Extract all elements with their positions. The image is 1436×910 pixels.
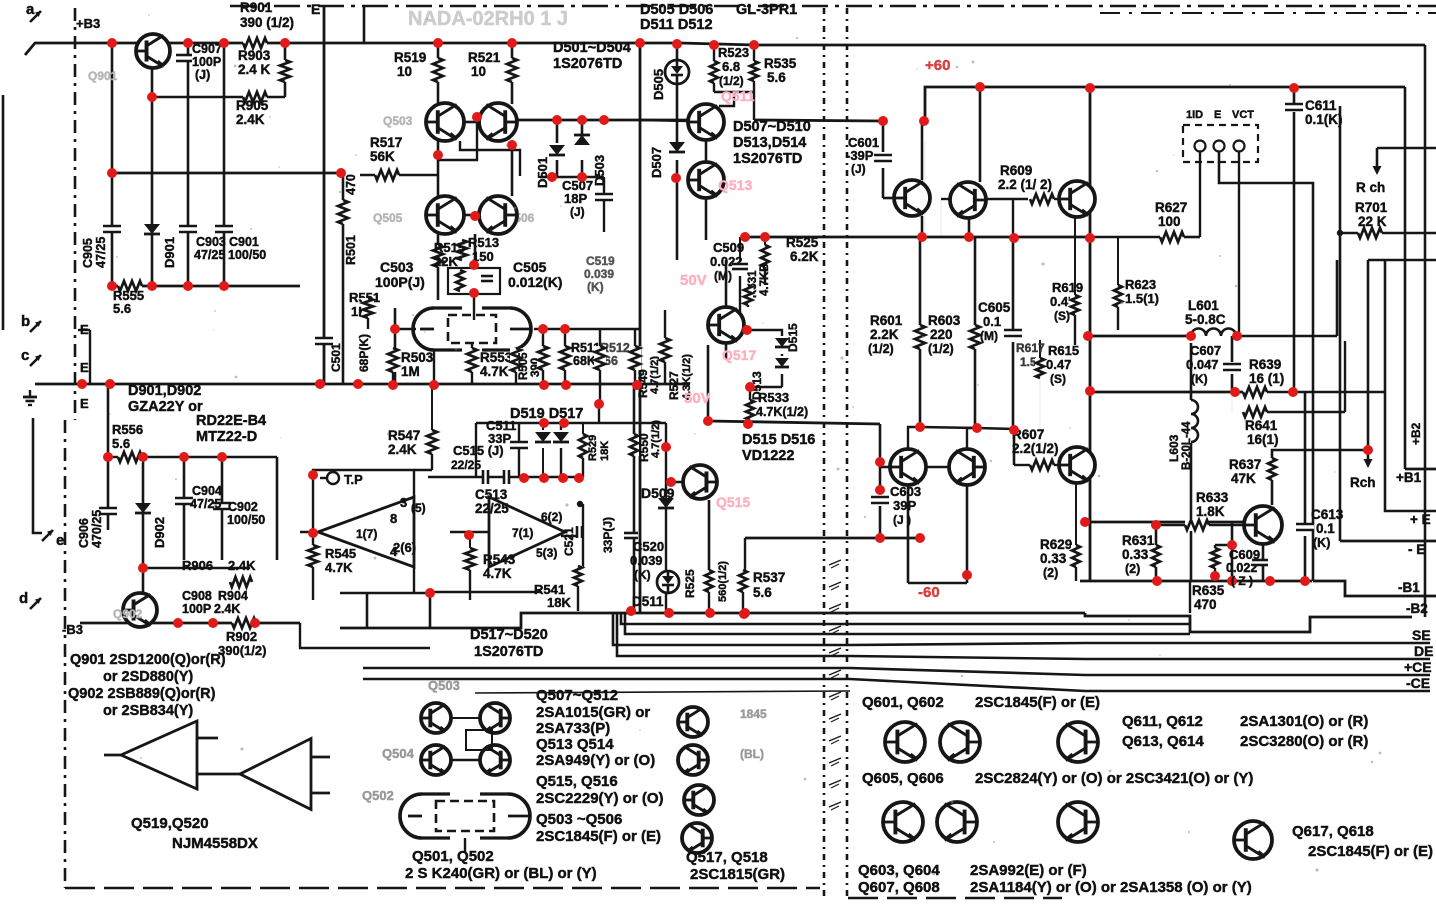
svg-text:e: e xyxy=(56,532,64,549)
svg-text:5.6: 5.6 xyxy=(113,301,131,316)
svg-text:L601: L601 xyxy=(1188,298,1219,313)
svg-text:2(6): 2(6) xyxy=(393,540,416,555)
svg-text:R503: R503 xyxy=(401,350,434,365)
svg-text:50V: 50V xyxy=(684,390,711,407)
svg-text:D507~D510: D507~D510 xyxy=(733,119,811,135)
svg-text:2.4K: 2.4K xyxy=(388,442,417,457)
svg-text:2SC1845(F) or (E): 2SC1845(F) or (E) xyxy=(536,828,661,845)
svg-text:C513: C513 xyxy=(475,487,508,502)
svg-text:C904: C904 xyxy=(192,484,222,498)
svg-text:Q601, Q602: Q601, Q602 xyxy=(862,694,944,711)
svg-text:R619: R619 xyxy=(1052,280,1083,295)
svg-text:1.8K: 1.8K xyxy=(1196,504,1225,519)
svg-text:4.7(1/2): 4.7(1/2) xyxy=(650,420,662,458)
svg-text:1S2076TD: 1S2076TD xyxy=(733,151,802,167)
svg-text:D901: D901 xyxy=(162,237,177,268)
svg-text:b: b xyxy=(21,313,30,330)
svg-text:R501: R501 xyxy=(344,235,358,265)
svg-text:2SC1845(F) or (E): 2SC1845(F) or (E) xyxy=(975,694,1100,711)
svg-text:C613: C613 xyxy=(1311,507,1344,522)
svg-text:Q519,Q520: Q519,Q520 xyxy=(131,815,209,832)
svg-text:470/25: 470/25 xyxy=(90,510,104,548)
svg-text:4.7K: 4.7K xyxy=(325,560,353,575)
svg-text:D501~D504: D501~D504 xyxy=(553,40,631,56)
svg-text:Q502: Q502 xyxy=(362,788,394,803)
svg-text:R905: R905 xyxy=(236,98,269,113)
svg-text:0.047: 0.047 xyxy=(1186,357,1219,372)
svg-text:Q902 2SB889(Q)or(R): Q902 2SB889(Q)or(R) xyxy=(68,686,216,702)
svg-text:C520: C520 xyxy=(633,539,664,554)
svg-text:(1/2): (1/2) xyxy=(719,74,744,88)
svg-text:18K: 18K xyxy=(547,595,571,610)
svg-text:4.7K: 4.7K xyxy=(483,566,512,581)
svg-text:C902: C902 xyxy=(228,500,258,514)
svg-text:Q605, Q606: Q605, Q606 xyxy=(862,770,944,787)
svg-text:-B2: -B2 xyxy=(1406,601,1428,616)
svg-text:47/25: 47/25 xyxy=(190,497,221,511)
svg-text:E: E xyxy=(80,396,89,411)
svg-text:(K): (K) xyxy=(634,568,651,582)
svg-text:4.7KB: 4.7KB xyxy=(759,263,771,296)
svg-text:0.1: 0.1 xyxy=(1316,521,1335,536)
svg-text:R641: R641 xyxy=(1245,418,1278,433)
svg-text:R639: R639 xyxy=(1249,357,1281,372)
svg-text:0.1: 0.1 xyxy=(983,314,1001,329)
svg-text:+60: +60 xyxy=(925,57,950,74)
svg-text:(1/2): (1/2) xyxy=(868,342,894,356)
svg-text:E: E xyxy=(311,1,320,17)
svg-text:1S2076TD: 1S2076TD xyxy=(474,644,543,660)
svg-text:D513,D514: D513,D514 xyxy=(733,135,806,151)
svg-text:0.039: 0.039 xyxy=(584,267,614,281)
svg-text:4.7K(1/2): 4.7K(1/2) xyxy=(756,405,808,419)
svg-text:(BL): (BL) xyxy=(740,747,764,761)
svg-text:33P(J): 33P(J) xyxy=(601,517,615,553)
svg-text:E: E xyxy=(1214,109,1221,121)
svg-text:220: 220 xyxy=(930,327,953,342)
svg-text:R525: R525 xyxy=(786,235,819,250)
svg-text:Q507~Q512: Q507~Q512 xyxy=(536,687,618,704)
svg-text:+CE: +CE xyxy=(1404,659,1432,675)
svg-text:2.4K: 2.4K xyxy=(236,112,265,127)
svg-text:100/50: 100/50 xyxy=(227,513,265,527)
svg-text:+B1: +B1 xyxy=(1396,470,1422,485)
svg-text:8: 8 xyxy=(390,511,397,526)
svg-text:0.039: 0.039 xyxy=(630,553,663,568)
svg-text:-60: -60 xyxy=(918,584,940,601)
svg-text:R523: R523 xyxy=(718,45,749,60)
svg-text:C503: C503 xyxy=(380,259,414,275)
svg-text:0.012(K): 0.012(K) xyxy=(508,274,562,290)
svg-text:R543: R543 xyxy=(483,552,516,567)
svg-text:R547: R547 xyxy=(388,428,420,443)
svg-text:Q504: Q504 xyxy=(382,746,415,761)
svg-text:18P: 18P xyxy=(564,191,587,206)
svg-text:R635: R635 xyxy=(1192,583,1225,598)
svg-text:47K: 47K xyxy=(1231,471,1256,486)
svg-text:1S2076TD: 1S2076TD xyxy=(553,56,622,72)
svg-text:47/25: 47/25 xyxy=(194,248,225,262)
svg-text:-B1: -B1 xyxy=(1398,580,1420,595)
svg-text:or 2SD880(Y): or 2SD880(Y) xyxy=(103,669,193,685)
svg-text:C905: C905 xyxy=(81,238,95,268)
svg-text:39P: 39P xyxy=(893,498,916,513)
svg-text:5-0.8C: 5-0.8C xyxy=(1185,312,1226,327)
svg-text:2SC1845(F) or (E): 2SC1845(F) or (E) xyxy=(1308,843,1433,860)
svg-text:Q505: Q505 xyxy=(373,211,403,225)
svg-text:Q513 Q514: Q513 Q514 xyxy=(536,736,614,753)
svg-text:R629: R629 xyxy=(1040,537,1072,552)
svg-text:100P(J): 100P(J) xyxy=(375,274,425,290)
svg-text:5(3): 5(3) xyxy=(536,546,557,560)
svg-text:Q503: Q503 xyxy=(383,114,413,128)
svg-text:(2): (2) xyxy=(1043,566,1058,580)
svg-text:R553: R553 xyxy=(480,350,513,365)
svg-text:22K: 22K xyxy=(434,254,458,269)
svg-text:470: 470 xyxy=(1194,597,1217,612)
svg-text:D511: D511 xyxy=(632,594,664,609)
svg-text:T.P: T.P xyxy=(344,472,363,487)
svg-text:R906: R906 xyxy=(182,558,213,573)
svg-text:0.33: 0.33 xyxy=(1040,551,1067,566)
svg-text:10: 10 xyxy=(397,64,412,79)
svg-text:1ID: 1ID xyxy=(1186,109,1203,121)
svg-text:C903: C903 xyxy=(196,235,226,249)
svg-text:D505: D505 xyxy=(651,69,666,100)
svg-text:2 S K240(GR) or (BL) or (Y): 2 S K240(GR) or (BL) or (Y) xyxy=(405,865,597,882)
svg-text:GL-3PR1: GL-3PR1 xyxy=(736,2,797,18)
svg-text:R ch: R ch xyxy=(1356,180,1385,195)
svg-text:50V: 50V xyxy=(680,272,707,289)
svg-text:68P(K): 68P(K) xyxy=(357,334,371,372)
svg-text:C505: C505 xyxy=(513,259,547,275)
svg-text:6.8: 6.8 xyxy=(722,59,740,74)
svg-text:D901,D902: D901,D902 xyxy=(128,383,201,399)
svg-text:100: 100 xyxy=(1158,214,1181,229)
svg-text:2SA1015(GR) or: 2SA1015(GR) or xyxy=(536,704,650,721)
svg-text:C603: C603 xyxy=(890,484,921,499)
svg-text:Q503 ~Q506: Q503 ~Q506 xyxy=(536,811,622,828)
svg-text:R637: R637 xyxy=(1229,457,1261,472)
svg-text:Q513: Q513 xyxy=(718,177,752,193)
svg-text:R615: R615 xyxy=(1048,343,1079,358)
svg-text:(K): (K) xyxy=(587,280,604,294)
svg-text:R903: R903 xyxy=(238,48,271,63)
svg-text:R627: R627 xyxy=(1155,200,1187,215)
svg-text:C501: C501 xyxy=(329,343,343,372)
svg-text:Q517, Q518: Q517, Q518 xyxy=(686,849,768,866)
svg-text:2SC2229(Y) or (O): 2SC2229(Y) or (O) xyxy=(536,790,664,807)
svg-text:- E: - E xyxy=(1408,542,1425,557)
svg-text:100P: 100P xyxy=(192,55,221,69)
svg-text:5.6: 5.6 xyxy=(753,585,772,600)
svg-text:Q515: Q515 xyxy=(716,494,750,510)
svg-text:R701: R701 xyxy=(1355,200,1388,215)
svg-text:Q611, Q612: Q611, Q612 xyxy=(1122,713,1203,730)
svg-text:2.4K: 2.4K xyxy=(228,558,256,573)
svg-text:2.2 (1/ 2): 2.2 (1/ 2) xyxy=(998,177,1052,192)
svg-text:B-20L-44: B-20L-44 xyxy=(1181,421,1193,470)
svg-text:6.2K: 6.2K xyxy=(790,249,819,264)
svg-text:Q901: Q901 xyxy=(88,69,118,83)
svg-text:56K: 56K xyxy=(370,149,395,164)
svg-text:560(1/2): 560(1/2) xyxy=(717,561,729,602)
svg-text:470: 470 xyxy=(344,174,358,195)
svg-text:Q501, Q502: Q501, Q502 xyxy=(412,848,494,865)
svg-text:MTZ22-D: MTZ22-D xyxy=(196,429,257,445)
svg-text:R556: R556 xyxy=(112,422,143,437)
svg-text:2SA1301(O) or (R): 2SA1301(O) or (R) xyxy=(1240,713,1368,730)
svg-text:(J): (J) xyxy=(570,205,585,219)
svg-text:2SA1184(Y) or (O) or 2SA1358 (: 2SA1184(Y) or (O) or 2SA1358 (O) or (Y) xyxy=(970,879,1252,896)
svg-text:68K: 68K xyxy=(573,354,596,368)
svg-text:1(7): 1(7) xyxy=(356,527,377,541)
svg-text:R609: R609 xyxy=(1000,163,1032,178)
svg-text:R505: R505 xyxy=(518,352,530,380)
svg-text:D501: D501 xyxy=(535,157,550,188)
svg-text:R603: R603 xyxy=(928,313,961,328)
svg-text:R513: R513 xyxy=(468,235,499,250)
svg-text:(J ): (J ) xyxy=(893,513,911,527)
svg-text:C907: C907 xyxy=(192,42,222,56)
svg-text:R537: R537 xyxy=(753,570,785,585)
svg-text:R617: R617 xyxy=(1016,341,1045,355)
svg-text:Q503: Q503 xyxy=(428,678,460,693)
svg-text:R902: R902 xyxy=(226,629,257,644)
svg-text:C906: C906 xyxy=(77,518,91,548)
svg-text:3: 3 xyxy=(400,495,407,510)
svg-text:(J): (J) xyxy=(195,68,210,82)
svg-text:(J): (J) xyxy=(851,162,866,176)
svg-text:R525: R525 xyxy=(683,569,697,598)
svg-text:4.7K: 4.7K xyxy=(480,364,509,379)
svg-text:Q511: Q511 xyxy=(721,88,755,104)
svg-text:D503: D503 xyxy=(592,155,607,186)
svg-text:D507: D507 xyxy=(649,147,664,178)
svg-text:D902: D902 xyxy=(152,517,167,548)
svg-text:C611: C611 xyxy=(1305,98,1337,113)
svg-text:6(2): 6(2) xyxy=(541,510,562,524)
svg-text:+B2: +B2 xyxy=(1409,422,1423,445)
svg-text:VD1222: VD1222 xyxy=(742,448,794,464)
svg-text:1M: 1M xyxy=(401,364,420,379)
svg-text:E: E xyxy=(80,360,89,375)
svg-text:0.1(K): 0.1(K) xyxy=(1305,112,1343,127)
svg-text:C521: C521 xyxy=(562,527,576,556)
svg-text:2.4K: 2.4K xyxy=(214,602,240,616)
svg-text:C605: C605 xyxy=(978,300,1011,315)
svg-text:+ E: + E xyxy=(1410,512,1431,527)
svg-text:(S): (S) xyxy=(1050,372,1066,386)
svg-text:D515: D515 xyxy=(786,323,800,352)
svg-text:5.6: 5.6 xyxy=(112,436,130,451)
svg-text:0.47: 0.47 xyxy=(1046,357,1071,372)
svg-text:2SC3280(O) or (R): 2SC3280(O) or (R) xyxy=(1240,733,1368,750)
svg-text:R601: R601 xyxy=(870,313,903,328)
svg-text:R633: R633 xyxy=(1196,490,1229,505)
svg-text:E: E xyxy=(80,322,89,337)
svg-text:Q613, Q614: Q613, Q614 xyxy=(1122,733,1204,750)
svg-text:1.5: 1.5 xyxy=(1020,355,1037,369)
svg-text:R550: R550 xyxy=(637,433,651,462)
svg-text:C908: C908 xyxy=(182,589,212,603)
svg-text:( Z ): ( Z ) xyxy=(1231,574,1253,588)
svg-text:D511 D512: D511 D512 xyxy=(640,17,713,33)
svg-text:D505 D506: D505 D506 xyxy=(640,2,713,18)
svg-text:NADA-02RH0 1 J: NADA-02RH0 1 J xyxy=(408,8,568,30)
svg-text:2.4 K: 2.4 K xyxy=(238,62,271,77)
svg-text:Q607, Q608: Q607, Q608 xyxy=(858,879,940,896)
svg-text:Q603, Q604: Q603, Q604 xyxy=(858,862,940,879)
svg-text:R519: R519 xyxy=(394,50,426,65)
svg-text:DE: DE xyxy=(1414,643,1433,659)
svg-text:10: 10 xyxy=(471,64,486,79)
svg-text:(2): (2) xyxy=(1125,562,1140,576)
svg-text:C515 (J): C515 (J) xyxy=(453,443,504,458)
svg-text:100P: 100P xyxy=(182,602,211,616)
svg-text:2.2(1/2): 2.2(1/2) xyxy=(1012,441,1059,456)
svg-text:D517~D520: D517~D520 xyxy=(470,627,548,643)
svg-text:+B3: +B3 xyxy=(76,16,100,31)
svg-text:R521: R521 xyxy=(468,50,501,65)
svg-text:or 2SB834(Y): or 2SB834(Y) xyxy=(103,703,193,719)
svg-text:16(1): 16(1) xyxy=(1247,432,1279,447)
svg-text:22/25: 22/25 xyxy=(451,458,481,472)
svg-text:0.33: 0.33 xyxy=(1122,547,1149,562)
svg-text:(M): (M) xyxy=(980,329,998,343)
svg-text:GZA22Y or: GZA22Y or xyxy=(128,399,203,415)
svg-text:(5): (5) xyxy=(411,501,426,515)
svg-text:c: c xyxy=(21,347,29,364)
svg-text:7(1): 7(1) xyxy=(512,526,533,540)
svg-text:(K): (K) xyxy=(1191,372,1208,386)
svg-text:16 (1): 16 (1) xyxy=(1249,371,1284,386)
svg-text:a: a xyxy=(26,1,35,18)
svg-text:L603: L603 xyxy=(1167,434,1181,462)
svg-text:C519: C519 xyxy=(586,254,615,268)
svg-text:5.6: 5.6 xyxy=(767,70,786,85)
svg-text:R527: R527 xyxy=(667,371,681,400)
svg-text:390 (1/2): 390 (1/2) xyxy=(240,15,294,30)
svg-text:D515 D516: D515 D516 xyxy=(742,432,815,448)
svg-text:NJM4558DX: NJM4558DX xyxy=(172,835,258,852)
svg-text:R631: R631 xyxy=(1122,533,1155,548)
svg-text:2SA992(E) or (F): 2SA992(E) or (F) xyxy=(970,862,1087,879)
svg-text:Rch: Rch xyxy=(1350,475,1376,490)
svg-text:C509: C509 xyxy=(713,240,744,255)
svg-text:-39P: -39P xyxy=(846,148,874,163)
svg-text:1.5(1): 1.5(1) xyxy=(1125,291,1159,306)
svg-text:R533: R533 xyxy=(758,390,789,405)
svg-text:SE: SE xyxy=(1412,627,1431,643)
svg-text:RD22E-B4: RD22E-B4 xyxy=(196,413,266,429)
svg-text:VCT: VCT xyxy=(1232,109,1254,121)
svg-text:-B3: -B3 xyxy=(62,622,83,637)
svg-text:C901: C901 xyxy=(229,235,259,249)
svg-text:Q902: Q902 xyxy=(113,607,143,621)
svg-text:R517: R517 xyxy=(370,135,402,150)
svg-text:R529: R529 xyxy=(587,435,599,461)
svg-text:R623: R623 xyxy=(1125,277,1156,292)
svg-text:R535: R535 xyxy=(764,56,797,71)
svg-text:2.2K: 2.2K xyxy=(870,327,899,342)
svg-text:-CE: -CE xyxy=(1406,675,1430,691)
svg-text:d: d xyxy=(19,590,28,607)
svg-text:Q515, Q516: Q515, Q516 xyxy=(536,773,618,790)
svg-text:R901: R901 xyxy=(240,0,273,15)
svg-text:R904: R904 xyxy=(218,589,248,603)
svg-text:18K: 18K xyxy=(599,441,611,461)
svg-text:(M): (M) xyxy=(714,269,732,283)
svg-text:(K): (K) xyxy=(1313,536,1330,550)
svg-text:C607: C607 xyxy=(1190,343,1221,358)
svg-text:Q517: Q517 xyxy=(722,347,756,363)
svg-text:2SC2824(Y) or (O) or 2SC3421(: 2SC2824(Y) or (O) or 2SC3421(O) or (Y) xyxy=(975,770,1253,787)
svg-text:100/50: 100/50 xyxy=(228,248,266,262)
svg-text:Q617, Q618: Q617, Q618 xyxy=(1292,823,1374,840)
svg-text:2SA733(P): 2SA733(P) xyxy=(536,720,610,737)
svg-text:2SA949(Y) or (O): 2SA949(Y) or (O) xyxy=(536,752,655,769)
svg-text:(S): (S) xyxy=(1054,309,1070,323)
svg-text:47/25: 47/25 xyxy=(94,237,108,268)
svg-text:R515: R515 xyxy=(434,240,465,255)
svg-text:2SC1815(GR): 2SC1815(GR) xyxy=(690,866,785,883)
svg-text:1845: 1845 xyxy=(740,707,767,721)
svg-text:(1/2): (1/2) xyxy=(928,342,954,356)
svg-text:Q901 2SD1200(Q)or(R): Q901 2SD1200(Q)or(R) xyxy=(70,652,226,668)
svg-text:R545: R545 xyxy=(325,546,356,561)
